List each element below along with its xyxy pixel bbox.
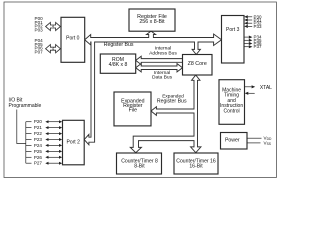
svg-text:Data Bus: Data Bus — [152, 75, 173, 81]
port 2 block — [63, 120, 85, 165]
port 3 block — [222, 16, 245, 64]
pin arrow out of Port 3 (P34) — [244, 36, 249, 38]
Z8 core block — [183, 55, 213, 76]
svg-text:8-Bit: 8-Bit — [134, 164, 145, 170]
pin arrow into Port 3 (P33) — [248, 25, 252, 27]
wire internal address bus (Z8 Core to ROM) — [136, 56, 183, 64]
svg-text:P22: P22 — [34, 131, 43, 136]
svg-text:Port 3: Port 3 — [226, 27, 240, 33]
wire register bus (Port 0 to Port 3, with branches to Register File, Z8 Core and Port 2) — [84, 31, 221, 145]
bidirectional pin arrow P22 to Port 2 — [49, 133, 60, 135]
pin arrow into Port 3 (P32) — [248, 22, 252, 24]
bidirectional pin arrow P24 to Port 2 — [49, 144, 60, 146]
svg-text:4: 4 — [52, 25, 54, 29]
pin arrow into Port 3 (P30) — [248, 16, 252, 18]
expanded register file block — [114, 92, 151, 126]
svg-text:Programmable: Programmable — [9, 103, 42, 109]
svg-text:P21: P21 — [34, 125, 43, 130]
XTAL clock in arrow — [248, 92, 254, 94]
svg-text:File: File — [129, 108, 137, 114]
svg-text:Z8 Core: Z8 Core — [188, 61, 207, 67]
svg-text:Address Bus: Address Bus — [149, 51, 177, 57]
bidirectional pin arrow P23 to Port 2 — [49, 139, 60, 141]
outer border frame — [4, 2, 276, 178]
pin arrow out of Port 3 (P36) — [244, 43, 249, 45]
wire expanded register bus (Z8 Core to Expanded Register File and Counter/Timers) — [130, 75, 201, 153]
svg-text:Port 0: Port 0 — [66, 36, 80, 42]
svg-text:P07: P07 — [35, 49, 44, 54]
wire VSS — [247, 142, 261, 144]
pin arrow out of Port 3 (P35) — [244, 39, 249, 41]
svg-text:XTAL: XTAL — [260, 85, 272, 91]
pin arrow out of Port 3 (P37) — [244, 46, 249, 48]
svg-text:P27: P27 — [34, 161, 43, 166]
bracket wire from label to P20-P27 pins — [17, 110, 26, 164]
svg-text:Control: Control — [224, 108, 240, 114]
svg-text:Port 2: Port 2 — [67, 139, 81, 145]
svg-text:Power: Power — [225, 138, 240, 144]
ROM block — [100, 54, 135, 73]
bidirectional nibble arrow P00-P03 to Port 0 — [46, 22, 61, 30]
svg-text:P25: P25 — [34, 149, 43, 154]
svg-text:Register Bus: Register Bus — [157, 99, 187, 105]
XTAL clock out arrow — [245, 86, 252, 88]
wire VDD — [247, 137, 262, 139]
bidirectional pin arrow P25 to Port 2 — [49, 150, 60, 152]
svg-text:Register Bus: Register Bus — [104, 42, 134, 48]
counter/timer 16 block — [174, 153, 218, 174]
svg-text:P37: P37 — [254, 44, 263, 49]
svg-text:P20: P20 — [34, 119, 43, 124]
svg-text:4/8K x 8: 4/8K x 8 — [109, 62, 128, 68]
svg-text:P24: P24 — [34, 143, 43, 148]
svg-text:P23: P23 — [34, 137, 43, 142]
bidirectional pin arrow P26 to Port 2 — [49, 156, 60, 158]
svg-text:P33: P33 — [254, 24, 263, 29]
svg-text:Internal: Internal — [155, 45, 171, 51]
register file block — [129, 9, 175, 31]
svg-text:P26: P26 — [34, 155, 43, 160]
wire internal data bus (ROM to Z8 Core, bidirectional) — [136, 64, 183, 72]
machine timing and instruction control block — [219, 80, 245, 125]
bidirectional pin arrow P27 to Port 2 — [49, 162, 60, 164]
counter/timer 8 block — [117, 153, 162, 174]
svg-text:16-Bit: 16-Bit — [189, 164, 203, 170]
bidirectional pin arrow P21 to Port 2 — [49, 127, 60, 129]
svg-text:VSS: VSS — [264, 140, 272, 145]
bidirectional pin arrow P20 to Port 2 — [49, 121, 60, 123]
pin arrow into Port 3 (P31) — [248, 19, 252, 21]
svg-text:256 x 8-Bit: 256 x 8-Bit — [139, 19, 165, 25]
svg-text:P03: P03 — [35, 28, 44, 33]
power block — [221, 133, 248, 150]
port 0 block — [61, 17, 85, 62]
bidirectional nibble arrow P04-P07 to Port 0 — [46, 45, 61, 53]
svg-text:4: 4 — [52, 47, 54, 51]
